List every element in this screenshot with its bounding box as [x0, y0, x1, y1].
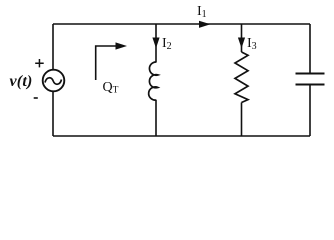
I1 arrowhead — [199, 21, 211, 28]
label I2 — [162, 36, 172, 52]
wire bottom — [53, 135, 310, 137]
wire inductor branch lower — [155, 100, 157, 136]
I2 arrowhead — [152, 38, 159, 49]
label I3 — [247, 36, 257, 52]
capacitor C top plate — [296, 73, 325, 75]
wire left lower segment — [52, 91, 54, 136]
wire left upper segment — [52, 24, 54, 70]
source V1 circle — [43, 70, 65, 92]
svg-text:I3: I3 — [247, 36, 257, 52]
resistor R zigzag — [235, 52, 248, 103]
wire inductor branch upper — [155, 24, 157, 62]
inductor L coil — [149, 62, 158, 100]
svg-text:I2: I2 — [162, 36, 172, 52]
label plus — [35, 59, 44, 67]
label QT — [103, 80, 119, 96]
wire resistor branch upper — [241, 24, 243, 52]
label v(t) — [10, 73, 33, 90]
wire right upper segment — [309, 24, 311, 74]
QT arrowhead — [116, 42, 128, 49]
svg-text:QT: QT — [103, 80, 119, 96]
wire top — [53, 23, 310, 25]
wire right lower segment — [309, 85, 311, 137]
wire resistor branch lower — [241, 103, 243, 137]
QT bent arrow — [96, 46, 117, 80]
source V1 sine — [45, 78, 62, 84]
svg-text:I1: I1 — [197, 4, 207, 20]
label I1 — [197, 4, 207, 20]
svg-text:v(t): v(t) — [10, 73, 33, 90]
label minus — [34, 97, 38, 99]
I3 arrowhead — [238, 38, 245, 49]
capacitor C bottom plate — [296, 84, 325, 86]
